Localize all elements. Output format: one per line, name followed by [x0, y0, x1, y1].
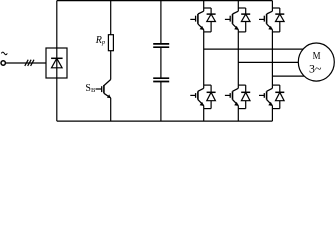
wire: +rail to Q1 collector — [203, 1, 205, 8]
wire: phase W leg midpoint — [271, 32, 273, 85]
wire: Q2 bottom node — [238, 31, 245, 33]
transistor SB (bypass switch) — [96, 80, 112, 99]
diode D2 (freewheel, antiparallel to Q2) — [241, 8, 250, 32]
transistor Q4 (IGBT, phase U lower) — [190, 85, 204, 109]
rectifier diode symbol — [51, 48, 63, 78]
wire: +rail to Q3 collector — [271, 1, 273, 8]
wire: Q1 top node — [204, 7, 211, 9]
transistor Q6 (IGBT, phase W lower) — [259, 85, 273, 109]
wire: C1 to C2 — [160, 47, 162, 78]
wire: rectifier to -rail — [56, 78, 58, 121]
wire: ac input — [6, 62, 47, 64]
wire: rectifier to +rail — [56, 1, 58, 48]
wire: Q4 top node — [204, 84, 211, 86]
transistor Q1 (IGBT, phase U upper) — [190, 8, 204, 32]
wire: Q6 top node — [272, 84, 279, 86]
motor M circle — [298, 43, 334, 81]
wire: phase V leg midpoint — [237, 32, 239, 85]
svg-text:SB: SB — [85, 83, 96, 94]
-dc rail (bottom bus) — [57, 120, 273, 122]
wire: Q6 bottom node — [272, 108, 279, 110]
ac source tilde symbol — [1, 52, 7, 55]
three-phase slash marks — [25, 60, 28, 66]
wire: Q5 emitter node to -rail — [237, 109, 239, 122]
diode D5 (freewheel, antiparallel to Q5) — [241, 85, 250, 109]
wire: Q1 bottom node — [204, 31, 211, 33]
wire: phase V output — [238, 61, 298, 63]
wire: Q5 bottom node — [238, 108, 245, 110]
+dc rail (top bus) — [57, 0, 273, 2]
diode D3 (freewheel, antiparallel to Q3) — [275, 8, 284, 32]
wire: phase U output — [204, 48, 304, 50]
wire: Q2 top node — [238, 7, 245, 9]
transistor Q3 (IGBT, phase W upper) — [259, 8, 273, 32]
wire: SB to -rail — [110, 98, 112, 121]
wire: +rail to Rp — [110, 1, 112, 35]
wire: Q4 bottom node — [204, 108, 211, 110]
wire: Q4 emitter node to -rail — [203, 109, 205, 122]
svg-text:Rp: Rp — [95, 35, 106, 46]
wire: phase U leg midpoint — [203, 32, 205, 85]
wire: Q5 top node — [238, 84, 245, 86]
wire: +rail to Q2 collector — [237, 1, 239, 8]
transistor Q5 (IGBT, phase V lower) — [225, 85, 239, 109]
wire: +rail to C1 — [160, 1, 162, 44]
wire: Q3 top node — [272, 7, 279, 9]
resistor Rp (pre-charge) — [108, 35, 113, 51]
wire: Q6 emitter node to -rail — [271, 109, 273, 122]
diode D4 (freewheel, antiparallel to Q4) — [207, 85, 216, 109]
svg-text:M: M — [313, 51, 321, 62]
wire: Rp to SB — [110, 51, 112, 80]
wire: C2 to -rail — [160, 82, 162, 122]
svg-text:3~: 3~ — [309, 64, 321, 76]
capacitor C2 (dc link) — [153, 78, 169, 81]
transistor Q2 (IGBT, phase V upper) — [225, 8, 239, 32]
diode D1 (freewheel, antiparallel to Q1) — [207, 8, 216, 32]
wire: Q3 bottom node — [272, 31, 279, 33]
rectifier block outline — [46, 48, 67, 78]
capacitor C1 (dc link) — [153, 44, 169, 47]
wire: phase W output — [272, 75, 304, 77]
ac input terminal — [1, 61, 5, 65]
diode D6 (freewheel, antiparallel to Q6) — [275, 85, 284, 109]
